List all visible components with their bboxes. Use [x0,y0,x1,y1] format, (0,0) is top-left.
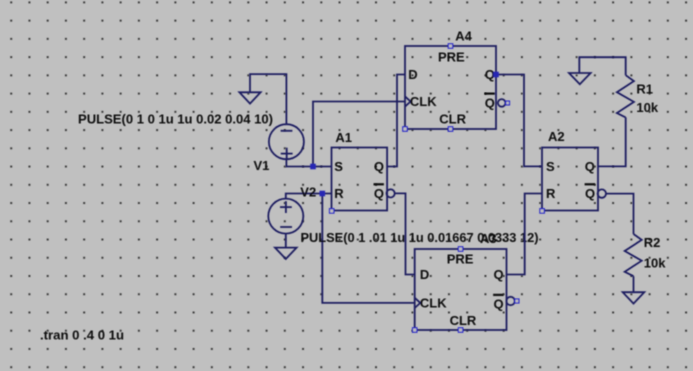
svg-text:R: R [546,186,556,201]
svg-text:Q: Q [585,159,595,174]
pin square A4 bottom-left [403,127,407,131]
voltage source V2 [268,199,303,234]
svg-text:S: S [334,159,343,174]
pin square A4 after bubble [506,101,510,105]
svg-text:CLK: CLK [410,94,437,109]
junction V2 node [320,191,326,197]
svg-text:Q: Q [585,186,595,201]
svg-text:PULSE(0 1 .01 1u 1u 0.01667 0.: PULSE(0 1 .01 1u 1u 0.01667 0.0333 12) [301,230,539,245]
Qbar bubble A3 [506,297,514,305]
svg-text:CLR: CLR [439,111,466,126]
wire V1 bottom to S of A1 [286,159,331,166]
resistor R1 [617,75,634,117]
svg-text:10k: 10k [644,256,666,271]
flip-flop A3 [413,247,519,332]
svg-text:A4: A4 [455,29,472,44]
pin square A2 bottom-left [540,209,544,213]
Qbar bubble A4 [498,99,506,107]
junction A4 Q [493,72,499,78]
svg-text:V1: V1 [254,158,270,173]
ground (R2) [623,292,645,303]
svg-text:Q: Q [494,297,504,312]
svg-text:Q: Q [494,267,504,282]
voltage source V1 [269,124,304,159]
svg-text:R2: R2 [644,235,661,250]
svg-text:CLK: CLK [420,295,447,310]
ground (R1) [569,73,591,84]
resistor R2 [625,234,642,276]
pin square A3 after bubble [515,299,519,303]
clock arrow A3 [415,298,421,308]
svg-text:10k: 10k [636,100,658,115]
svg-text:Q: Q [485,95,495,110]
svg-text:Q: Q [374,159,384,174]
flip-flop A1 [330,148,395,214]
svg-text:R1: R1 [636,81,653,96]
wire A4 Q to S of A2 [496,75,542,167]
pin square A1 bottom-left [330,209,334,213]
svg-text:Q: Q [374,186,384,201]
pin square A3 bottom-left [413,328,417,332]
Qbar bubble A2 [598,189,606,197]
svg-text:S: S [546,159,555,174]
svg-text:A2: A2 [548,129,565,144]
wire R1 top to ground rail [579,57,625,75]
clock arrow A4 [405,96,411,106]
wire A2 Qbar to R2 [606,194,634,234]
junction V1 node [310,164,316,170]
svg-text:PRE: PRE [447,252,474,267]
wire A1 Qbar to D of A3 [395,193,415,274]
Qbar bubble A1 [387,189,395,197]
wire V2 node down to CLK of A3 [322,194,414,303]
ground (V1) [239,92,260,103]
pin square A3 PRE top [458,247,462,251]
wire A3 Q to R of A2 [507,194,543,275]
wire V2 top to R of A1 [286,194,332,199]
flip-flop A4 [403,44,510,131]
wire V1 top to ground rail [250,74,286,124]
svg-text:R: R [334,186,344,201]
svg-text:D: D [408,67,417,82]
svg-text:D: D [420,267,429,282]
wire V2 bottom to ground [285,234,287,248]
wire A1 Q to D of A4 [387,75,405,167]
svg-text:PRE: PRE [438,50,465,65]
svg-text:.tran 0 .4 0 1u: .tran 0 .4 0 1u [40,328,124,343]
wire node V1 up to CLK of A4 [313,102,405,167]
svg-text:A3: A3 [480,231,497,246]
pin square A4 PRE top [448,44,452,48]
ground (V2) [275,248,297,259]
wire A2 Q to R1 [598,117,626,166]
svg-text:V2: V2 [300,185,316,200]
svg-text:A1: A1 [335,130,352,145]
pin square A3 CLR bottom [458,328,462,332]
pin square A4 CLR bottom [448,127,452,131]
flip-flop A2 [540,148,606,214]
wire R2 bottom to ground [633,276,635,292]
svg-text:PULSE(0 1 0 1u 1u 0.02 0.04 10: PULSE(0 1 0 1u 1u 0.02 0.04 10) [78,112,273,127]
svg-text:CLR: CLR [450,313,477,328]
